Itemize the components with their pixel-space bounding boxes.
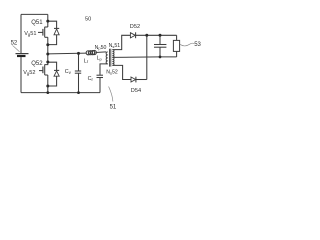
svg-text:Ns51: Ns51 [109,43,121,49]
svg-text:52: 52 [11,40,18,46]
svg-text:51: 51 [110,105,117,111]
svg-text:Q52: Q52 [31,61,43,67]
svg-text:Vg51: Vg51 [24,31,36,37]
svg-text:Np50: Np50 [95,45,107,51]
svg-text:D52: D52 [130,24,140,30]
svg-text:Q51: Q51 [31,20,43,26]
svg-text:D54: D54 [131,88,141,94]
svg-text:Lp: Lp [97,56,103,62]
svg-text:53: 53 [194,42,201,48]
svg-text:Lr: Lr [84,58,89,64]
svg-text:Vg52: Vg52 [23,70,35,76]
svg-text:Ns52: Ns52 [106,70,118,76]
svg-text:50: 50 [85,17,91,23]
svg-text:Cv: Cv [65,69,72,75]
svg-text:Cr: Cr [88,76,94,82]
